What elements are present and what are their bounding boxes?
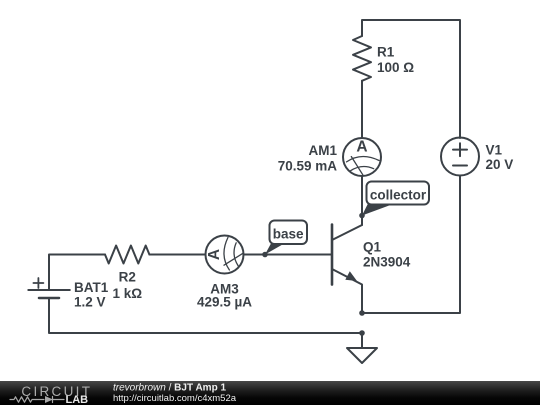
ammeter AM3 — [206, 236, 244, 274]
Q1 value label — [363, 240, 411, 270]
CircuitLab logo — [10, 384, 92, 405]
svg-text:1 kΩ: 1 kΩ — [113, 286, 143, 301]
wire battery top to R2 — [49, 255, 105, 291]
ground — [347, 333, 377, 363]
svg-text:V1: V1 — [486, 143, 503, 158]
svg-text:20 V: 20 V — [486, 157, 514, 172]
svg-text:BAT1: BAT1 — [74, 280, 109, 295]
wire battery bottom to ground rail — [49, 298, 362, 333]
svg-text:1.2 V: 1.2 V — [74, 295, 106, 310]
svg-text:R2: R2 — [119, 270, 136, 285]
R2 value label — [113, 270, 143, 302]
svg-text:2N3904: 2N3904 — [363, 255, 411, 270]
base callout label — [265, 221, 307, 255]
ammeter AM1 — [343, 138, 381, 176]
svg-text:A: A — [206, 249, 223, 260]
svg-text:base: base — [273, 227, 304, 242]
svg-text:100 Ω: 100 Ω — [377, 60, 414, 75]
svg-text:R1: R1 — [377, 45, 395, 60]
svg-text:LAB: LAB — [66, 394, 89, 405]
node ground rail junction dot — [359, 330, 365, 336]
resistor R2 — [105, 246, 149, 264]
AM3 value label — [197, 281, 252, 309]
wire V1 bottom to emitter node — [362, 176, 460, 314]
svg-text:70.59 mA: 70.59 mA — [278, 159, 338, 174]
V1 value label — [486, 143, 514, 173]
wire AM3 to Q1 base — [244, 254, 332, 256]
footer credits text — [113, 383, 237, 404]
svg-text:http://circuitlab.com/c4xm52a: http://circuitlab.com/c4xm52a — [113, 393, 237, 404]
BAT1 value label — [74, 280, 109, 310]
wire R1 bottom to AM1 top — [361, 81, 363, 138]
collector callout label — [362, 182, 429, 216]
svg-text:Q1: Q1 — [363, 240, 382, 255]
wire AM1 bottom to collector node — [361, 176, 363, 225]
voltage source V1 — [441, 138, 479, 176]
svg-text:AM1: AM1 — [308, 143, 337, 158]
svg-text:429.5 µA: 429.5 µA — [197, 294, 252, 309]
resistor R1 — [353, 36, 371, 81]
transistor Q1 2N3904 — [332, 216, 362, 313]
wire top rail from R1 top to V1 top — [362, 20, 460, 138]
node emitter junction dot — [359, 310, 365, 316]
node base junction dot — [262, 252, 268, 258]
R1 value label — [377, 45, 414, 75]
node collector junction dot — [359, 213, 365, 219]
battery BAT1 — [28, 278, 70, 298]
AM1 value label — [278, 143, 338, 174]
svg-text:collector: collector — [370, 188, 427, 203]
wire R2 to AM3 — [149, 254, 205, 256]
svg-text:A: A — [356, 139, 367, 156]
